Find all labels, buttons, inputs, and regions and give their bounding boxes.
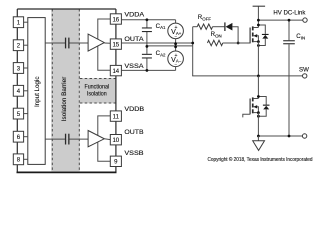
- capacitor barrier B: [65, 134, 70, 145]
- node VA on return: [174, 45, 177, 48]
- node CIN top: [288, 19, 291, 22]
- wire diode to corner: [232, 27, 238, 43]
- pin 6: [13, 131, 23, 142]
- node QH diode bottom: [257, 44, 260, 47]
- resistor RON: [208, 40, 223, 45]
- diode turn-off: [224, 22, 232, 31]
- wire QL gate stub: [243, 114, 250, 117]
- body diode QL: [258, 97, 269, 117]
- svg-text:Copyright © 2018, Texas Instru: Copyright © 2018, Texas Instruments Inco…: [208, 156, 313, 163]
- terminal SW: [303, 74, 307, 78]
- node CA1 top: [146, 18, 149, 21]
- wire VDDA line: [121, 19, 175, 21]
- driver A triangle: [88, 34, 104, 51]
- wire pin1 stub: [24, 21, 28, 23]
- pin 15: [110, 39, 121, 49]
- svg-text:OFF: OFF: [202, 16, 211, 21]
- svg-text:15: 15: [112, 42, 119, 48]
- IC outline: [17, 9, 117, 172]
- pin 4: [13, 85, 23, 96]
- svg-text:A1: A1: [160, 25, 166, 30]
- node QH source: [257, 40, 260, 43]
- wire signal A across barrier: [45, 42, 88, 44]
- pin 5: [13, 108, 23, 119]
- svg-text:IN: IN: [301, 36, 305, 41]
- svg-text:OUTA: OUTA: [124, 36, 144, 43]
- node ground junction: [257, 135, 260, 138]
- resistor ROFF: [197, 24, 212, 29]
- node cap midpoint: [146, 45, 149, 48]
- wire ground rail: [258, 135, 302, 137]
- wire gate QH: [223, 42, 250, 44]
- capacitor CA1: [142, 23, 166, 32]
- node ROFF right: [237, 42, 240, 45]
- wire OUTA line: [121, 42, 192, 44]
- isolation barrier gray bar: [51, 9, 80, 171]
- pin 2: [13, 40, 23, 51]
- svg-text:10: 10: [112, 138, 119, 144]
- wire driver A output: [104, 42, 110, 44]
- pin 16: [110, 14, 121, 24]
- pin 10: [110, 135, 121, 145]
- pin 11: [110, 111, 121, 121]
- capacitor CA2: [142, 50, 166, 59]
- node QH diode top: [257, 24, 260, 27]
- svg-text:VDDA: VDDA: [124, 12, 145, 19]
- wire VDDA rail A: [98, 19, 111, 70]
- wire QH source down to SW: [257, 42, 259, 76]
- wire QL drain up: [257, 76, 259, 99]
- node QL source: [257, 111, 260, 114]
- wire SW return: [192, 75, 302, 77]
- pin 14: [110, 65, 121, 75]
- wire return line from cap midpoint: [147, 45, 193, 47]
- wire pin2 stub: [24, 44, 28, 46]
- svg-text:SW: SW: [299, 66, 309, 73]
- pin 8: [13, 154, 23, 165]
- node QL diode bottom: [257, 115, 260, 118]
- wire QH drain up: [257, 6, 259, 27]
- wire QL source down: [257, 113, 259, 136]
- node SW junction: [257, 75, 260, 78]
- svg-text:Input Logic: Input Logic: [35, 77, 41, 108]
- transistor QH high-side MOSFET: [250, 26, 258, 43]
- node QL diode top: [257, 95, 260, 98]
- node HV drain: [257, 19, 260, 22]
- terminal ground rail: [302, 134, 306, 138]
- wire ROFF branch vertical: [192, 27, 194, 76]
- svg-text:Isolation Barrier: Isolation Barrier: [62, 77, 68, 122]
- source VA-: [168, 51, 184, 70]
- wire driver B output: [104, 138, 110, 141]
- svg-text:11: 11: [113, 114, 120, 120]
- wire pin8 stub: [24, 158, 28, 160]
- pin 1: [13, 17, 23, 28]
- svg-text:VSSA: VSSA: [124, 63, 144, 70]
- wire pin5 stub: [24, 113, 28, 115]
- driver B triangle: [88, 131, 104, 147]
- svg-text:ON: ON: [215, 33, 222, 38]
- wire pin3 stub: [24, 67, 28, 69]
- wire VSSA line: [121, 69, 175, 71]
- svg-text:OUTB: OUTB: [124, 129, 143, 136]
- wire signal B across barrier: [45, 138, 88, 140]
- rail T-bar top: [253, 5, 266, 7]
- svg-text:HV DC-Link: HV DC-Link: [273, 9, 306, 16]
- wire ROFF top: [193, 26, 198, 28]
- node CIN bottom: [288, 135, 291, 138]
- input logic box: [28, 18, 45, 165]
- node ROFF left: [191, 42, 194, 45]
- wire pin4 stub: [24, 90, 28, 92]
- svg-text:14: 14: [112, 69, 119, 75]
- pin 3: [13, 63, 23, 74]
- transistor QL low-side MOSFET: [250, 97, 258, 114]
- pin 9: [110, 156, 121, 166]
- wire ROFF to diode: [213, 26, 225, 28]
- body diode QH: [258, 25, 268, 46]
- svg-text:VSSB: VSSB: [124, 150, 143, 157]
- source VA+: [168, 20, 184, 51]
- wire HV line: [258, 19, 302, 21]
- svg-text:A2: A2: [160, 52, 166, 57]
- svg-text:VDDB: VDDB: [124, 106, 144, 113]
- capacitor CIN: [283, 20, 305, 136]
- terminal HV: [303, 18, 307, 22]
- capacitor barrier A: [65, 38, 70, 49]
- node VA on OUTA: [174, 42, 177, 45]
- wire pin6 stub: [24, 136, 28, 138]
- node CA2 bottom: [146, 69, 149, 72]
- functional isolation box: [80, 78, 116, 103]
- svg-text:16: 16: [112, 17, 119, 23]
- svg-text:Isolation: Isolation: [87, 90, 107, 97]
- wire cap string: [146, 20, 148, 71]
- wire VDDB rail B: [98, 116, 111, 161]
- ground symbol: [253, 136, 265, 150]
